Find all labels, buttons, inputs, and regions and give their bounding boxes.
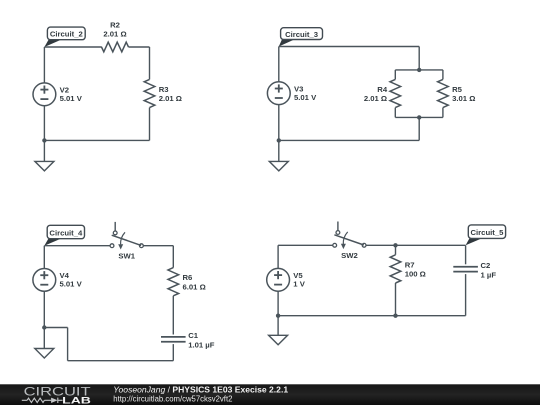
svg-text:R4: R4 [377, 85, 388, 94]
footer bar [0, 384, 540, 405]
svg-text:YooseonJang / PHYSICS 1E03 Exe: YooseonJang / PHYSICS 1E03 Execise 2.2.1 [113, 384, 288, 394]
wire [43, 328, 45, 349]
ground [35, 161, 54, 171]
wire [44, 245, 110, 247]
wire [278, 140, 280, 161]
resistor R3 [144, 79, 182, 107]
node [393, 243, 397, 247]
wire [43, 246, 45, 269]
wire [43, 140, 45, 161]
net label Circuit_2 [44, 27, 85, 47]
svg-text:5.01 V: 5.01 V [60, 94, 83, 103]
svg-text:2.01 Ω: 2.01 Ω [159, 94, 182, 103]
svg-text:6.01 Ω: 6.01 Ω [183, 282, 206, 291]
svg-text:1 V: 1 V [293, 280, 305, 289]
svg-text:R7: R7 [405, 260, 415, 269]
wire [442, 70, 444, 80]
wire [465, 245, 467, 264]
node [42, 138, 46, 142]
wire [395, 116, 443, 118]
node [417, 115, 421, 119]
wire [394, 108, 396, 118]
wire [278, 244, 333, 246]
wire [395, 283, 397, 316]
wire [149, 47, 151, 79]
wire [442, 108, 444, 118]
wire [44, 327, 67, 329]
svg-text:2.01 Ω: 2.01 Ω [364, 94, 387, 103]
wire [395, 69, 443, 71]
node [393, 314, 397, 318]
wire [278, 315, 466, 317]
wire [395, 245, 397, 255]
net label Circuit_3 [279, 28, 323, 47]
svg-text:LAB: LAB [62, 395, 91, 405]
wire [366, 244, 466, 246]
node [42, 325, 46, 329]
wire [44, 139, 149, 141]
wire [418, 47, 420, 70]
resistor R6 [168, 268, 206, 296]
svg-text:5.01 V: 5.01 V [294, 93, 317, 102]
wire [277, 245, 279, 268]
net label Circuit_5 [466, 225, 506, 245]
svg-text:http://circuitlab.com/cw57cksv: http://circuitlab.com/cw57cksv2vft2 [113, 394, 233, 403]
wire [43, 106, 45, 141]
svg-text:Circuit_5: Circuit_5 [470, 228, 504, 237]
resistor R7 [390, 255, 426, 283]
svg-text:Circuit_4: Circuit_4 [49, 228, 83, 237]
wire [278, 47, 280, 82]
svg-text:R6: R6 [183, 273, 193, 282]
wire [172, 344, 174, 361]
switch SW2 [333, 222, 366, 260]
ground [269, 335, 288, 345]
svg-text:SW1: SW1 [118, 251, 135, 260]
voltage source V3 [267, 82, 317, 105]
switch SW1 [110, 222, 143, 260]
svg-text:Circuit_2: Circuit_2 [50, 30, 83, 39]
svg-text:R5: R5 [452, 85, 463, 94]
wire [279, 139, 419, 141]
wire [172, 246, 174, 268]
wire [44, 46, 101, 48]
resistor R2 [102, 20, 129, 52]
wire [43, 47, 45, 83]
svg-text:100 Ω: 100 Ω [405, 270, 426, 279]
capacitor C2 [453, 261, 496, 280]
svg-text:C2: C2 [481, 261, 491, 270]
voltage source V2 [33, 83, 83, 106]
wire [277, 316, 279, 336]
resistor R5 [438, 79, 476, 107]
net label Circuit_4 [44, 225, 84, 245]
node [277, 138, 281, 142]
svg-text:C1: C1 [188, 331, 199, 340]
svg-text:5.01 V: 5.01 V [60, 280, 83, 289]
svg-text:3.01 Ω: 3.01 Ω [452, 94, 475, 103]
wire [129, 46, 150, 48]
svg-text:Circuit_3: Circuit_3 [285, 30, 318, 39]
wire [68, 360, 174, 362]
capacitor C1 [161, 331, 215, 350]
wire [465, 274, 467, 316]
svg-text:R2: R2 [110, 20, 120, 29]
svg-text:1 µF: 1 µF [481, 270, 497, 279]
node [276, 314, 280, 318]
ground [269, 161, 288, 171]
svg-text:1.01 µF: 1.01 µF [188, 340, 215, 349]
wire [172, 296, 174, 335]
svg-text:SW2: SW2 [341, 251, 358, 260]
svg-text:R3: R3 [159, 85, 169, 94]
ground [35, 349, 54, 359]
wire [43, 291, 45, 327]
voltage source V5 [267, 268, 306, 291]
wire [279, 46, 419, 48]
wire [277, 291, 279, 315]
wire [143, 245, 173, 247]
wire [418, 117, 420, 140]
wire [394, 70, 396, 80]
wire [67, 328, 69, 361]
svg-text:2.01 Ω: 2.01 Ω [103, 30, 126, 39]
wire [149, 108, 151, 141]
CircuitLab logo resistor-diode line [22, 398, 63, 403]
voltage source V4 [33, 269, 83, 292]
node [417, 68, 421, 72]
resistor R4 [364, 79, 401, 107]
wire [278, 105, 280, 141]
